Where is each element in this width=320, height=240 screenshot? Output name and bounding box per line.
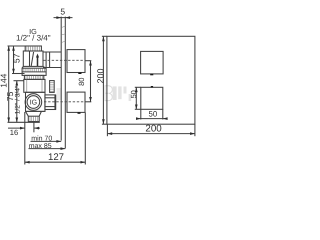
- svg-text:50: 50: [129, 90, 138, 98]
- svg-text:57: 57: [11, 53, 21, 63]
- svg-text:max 85: max 85: [29, 143, 52, 150]
- svg-text:50: 50: [149, 110, 158, 119]
- svg-text:200: 200: [145, 123, 162, 134]
- svg-text:200: 200: [95, 68, 105, 83]
- svg-text:IG: IG: [30, 99, 37, 106]
- svg-text:127: 127: [48, 152, 64, 163]
- svg-text:1/2" / 3/4": 1/2" / 3/4": [16, 34, 51, 43]
- svg-text:16: 16: [10, 128, 18, 137]
- svg-text:min 70: min 70: [31, 135, 52, 143]
- svg-text:5: 5: [60, 6, 65, 16]
- svg-text:1/2" / 3/4": 1/2" / 3/4": [15, 85, 22, 114]
- svg-text:144: 144: [0, 73, 8, 87]
- svg-text:80: 80: [77, 77, 86, 85]
